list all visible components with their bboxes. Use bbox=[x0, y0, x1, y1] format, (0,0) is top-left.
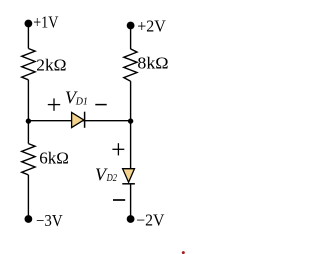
svg-text:+1V: +1V bbox=[33, 13, 58, 32]
svg-text:D2: D2 bbox=[106, 173, 117, 184]
svg-text:+2V: +2V bbox=[137, 17, 166, 36]
svg-text:−3V: −3V bbox=[36, 211, 63, 230]
svg-text:6kΩ: 6kΩ bbox=[39, 148, 69, 167]
svg-text:8kΩ: 8kΩ bbox=[137, 53, 168, 72]
svg-text:−2V: −2V bbox=[136, 211, 164, 230]
svg-text:D1: D1 bbox=[75, 96, 88, 107]
svg-text:2kΩ: 2kΩ bbox=[36, 55, 66, 74]
